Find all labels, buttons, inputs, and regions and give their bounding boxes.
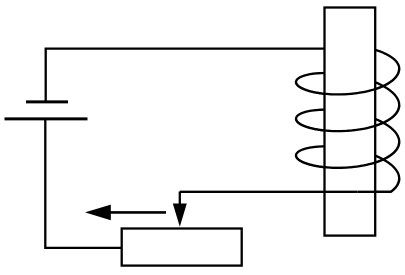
rheostat R1 body — [122, 229, 242, 266]
coil L1 front arc of last turn blending into bottom wire — [358, 179, 400, 192]
rheostat wiper arrow (points down into resistor) — [179, 192, 181, 207]
battery B1 short top plate — [26, 100, 68, 103]
coil L1 front arc of turn 2 — [296, 105, 399, 131]
coil L1 front arc of lead-in turn — [296, 68, 399, 94]
wire: bottom wire from coil end to rheostat wiper — [180, 191, 358, 193]
core: iron rod (hides back of turns) — [325, 8, 376, 236]
battery B1 long bottom plate — [5, 117, 88, 120]
wire: battery positive lead up and across to core left edge — [46, 49, 325, 102]
wire: battery negative lead down and along bottom to rheostat left terminal — [45, 119, 121, 248]
coil L1 front arc of turn 3 — [296, 142, 399, 168]
coil L1 full helix (back of turns, partially hidden by core) — [296, 48, 399, 192]
arrow: wiper slide direction annotation — [109, 211, 166, 214]
